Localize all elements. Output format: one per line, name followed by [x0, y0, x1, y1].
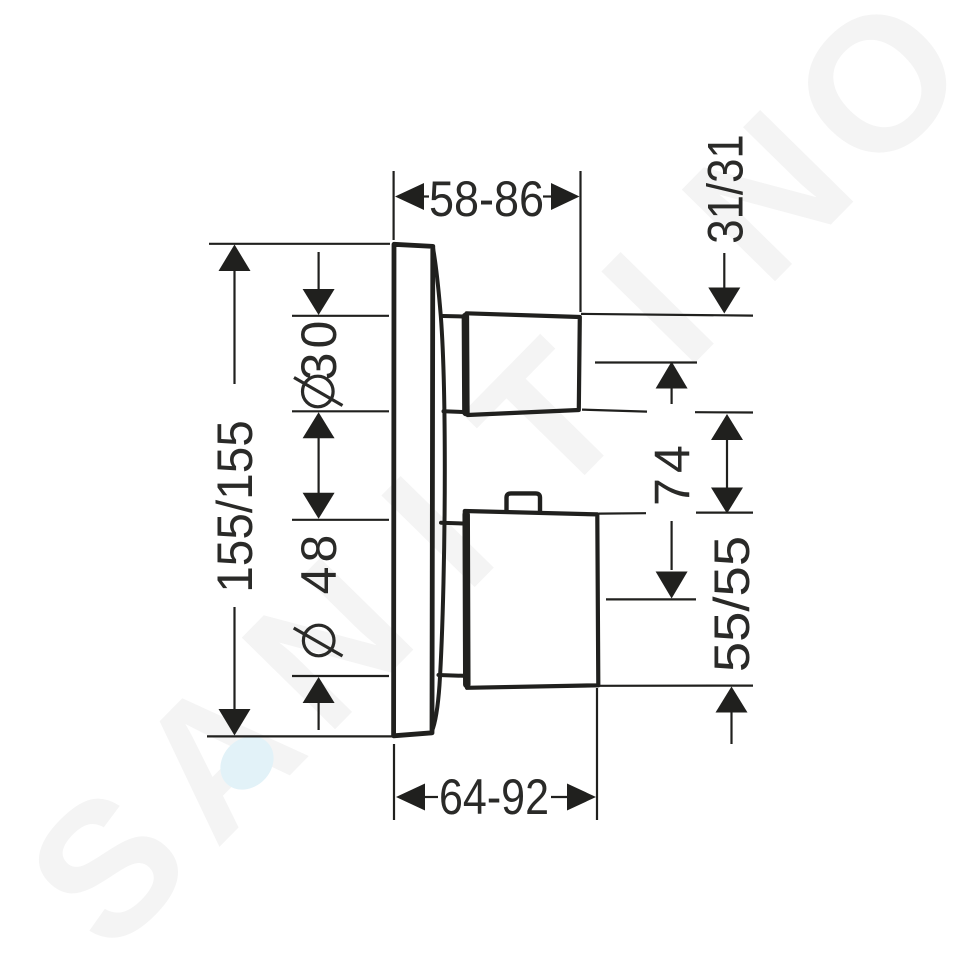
extension line: upper knob bottom right seg1 — [582, 410, 647, 412]
74 dim top arrow stem — [670, 388, 672, 404]
extension line: bottom of plate (155/155 bottom) — [207, 735, 392, 737]
arrow 58-86 left — [395, 183, 424, 210]
31/31 / 55/55 shared double-arrow stem — [726, 438, 728, 490]
extension line: 58-86 right — [579, 171, 581, 312]
diameter symbol of Ø30 — [303, 376, 334, 407]
arrow 64-92 right — [567, 784, 596, 811]
arrow 31/31 bottom (up, shared) — [711, 414, 743, 440]
extension line: upper knob centerline right — [595, 361, 697, 363]
extension line: lower knob centerline right — [606, 598, 696, 600]
svg-text:155/155: 155/155 — [208, 420, 263, 593]
extension line: lower sleeve top left (Ø48 top) — [292, 519, 389, 521]
55/55 bottom arrow stem — [730, 710, 732, 744]
upper handle back rim (thick) — [462, 317, 470, 413]
arrow 31/31 (down) — [708, 288, 740, 314]
extension line: upper knob top right — [581, 314, 753, 316]
lower handle sleeve top line — [441, 521, 463, 526]
lower handle sleeve bottom line — [439, 673, 464, 678]
svg-text:58-86: 58-86 — [429, 172, 544, 228]
dim line 58-86 left segment — [423, 195, 429, 197]
lower handle body — [465, 511, 599, 688]
svg-text:74: 74 — [645, 440, 701, 506]
extension line: lower sleeve bottom left (Ø48 bottom) — [292, 675, 389, 677]
arrow Ø30 top (down) — [303, 289, 335, 315]
escutcheon plate (side profile, face slab) — [394, 244, 433, 736]
arrow 55/55 top (down, shared) — [711, 488, 743, 514]
Ø48 bottom arrow stem — [318, 701, 320, 730]
extension line: upper knob bottom right seg2 — [695, 411, 753, 413]
upper handle sleeve top line — [443, 314, 463, 319]
arrow 74 top (up) — [656, 362, 688, 389]
arrow 55/55 bottom (up) — [716, 687, 748, 713]
extension line: lower knob bottom right — [599, 684, 753, 686]
extension line: lower knob top right seg2 — [696, 511, 753, 513]
arrow 155/155 down — [219, 709, 251, 736]
31/31 arrow stem — [723, 253, 725, 289]
upper handle body — [467, 313, 580, 415]
Ø30/Ø48 shared double-arrow stem — [318, 436, 320, 495]
extension line: upper knob top left (Ø30 top) — [292, 315, 389, 317]
extension line: 58-86 left — [393, 171, 395, 240]
svg-text:31/31: 31/31 — [697, 134, 753, 243]
dim line 64-92 right segment — [551, 796, 570, 798]
svg-text:30: 30 — [291, 317, 347, 381]
lower handle back rim (thick) — [462, 515, 470, 685]
155/155 dim stem upper — [233, 269, 235, 384]
svg-text:55/55: 55/55 — [705, 536, 760, 672]
extension line: top of plate (155/155 top) — [209, 243, 390, 245]
escutcheon flange curve — [432, 248, 445, 732]
extension line: lower knob top right seg1 — [599, 512, 646, 515]
lower handle top tab — [507, 493, 541, 511]
arrow Ø48 top (down, shared) — [303, 493, 335, 519]
arrow 155/155 up — [219, 245, 251, 272]
arrow 74 bottom (down) — [656, 572, 688, 599]
watermark water drop — [210, 726, 285, 801]
155/155 dim stem lower — [233, 607, 235, 712]
extension line: upper knob bottom left (Ø30 bottom) — [292, 410, 389, 412]
upper handle sleeve bottom line — [444, 409, 464, 414]
extension line: 64-92 left — [393, 744, 395, 820]
arrow 58-86 right — [551, 183, 580, 210]
arrow Ø48 bottom (up) — [303, 677, 335, 703]
dim line 64-92 left segment — [423, 796, 438, 798]
Ø30 top arrow stem — [318, 252, 320, 291]
svg-text:64-92: 64-92 — [439, 769, 549, 825]
arrow Ø30 bottom (up, shared) — [303, 412, 335, 438]
extension line: 64-92 right — [596, 688, 598, 820]
diameter symbol of Ø48 — [303, 625, 334, 656]
dim line 58-86 right segment — [543, 195, 552, 197]
svg-text:48: 48 — [291, 531, 347, 595]
arrow 64-92 left — [396, 784, 425, 811]
74 dim bottom arrow stem — [670, 521, 672, 570]
